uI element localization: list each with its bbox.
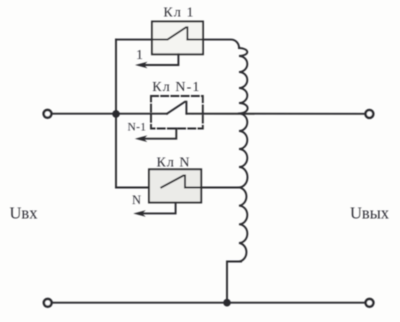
svg-text:Uвых: Uвых <box>350 203 390 222</box>
wire: row3 right segment to coil tap <box>185 187 240 189</box>
svg-text:Uвх: Uвх <box>10 204 39 223</box>
switch contact inside Кл N <box>161 176 185 188</box>
switch contact inside Кл 1 <box>152 27 187 39</box>
relay box Кл N <box>149 169 201 202</box>
svg-text:Кл 1: Кл 1 <box>163 5 194 20</box>
inductor L section A (top) <box>239 48 248 114</box>
wire: row2 right segment to output terminal <box>186 113 364 115</box>
terminal: output bottom <box>366 299 374 307</box>
wire: row1 left segment into Кл 1 <box>116 39 168 41</box>
svg-text:Кл N-1: Кл N-1 <box>152 80 200 95</box>
relay box Кл N-1 (dashed) <box>151 96 203 129</box>
wire: left vertical bus <box>115 40 117 188</box>
inductor L section B (middle) <box>239 113 247 187</box>
inductor L section C (bottom) <box>239 187 247 261</box>
actuator arrow of Кл N <box>143 203 176 214</box>
wire: input top horizontal <box>52 113 116 115</box>
switch contact inside Кл N-1 <box>167 102 186 114</box>
terminal: output top <box>366 110 374 118</box>
junction node: input bus <box>112 110 120 118</box>
svg-text:N: N <box>132 193 141 207</box>
terminal: input top <box>44 110 52 118</box>
junction node: bottom bus <box>223 299 231 307</box>
wire: coil bottom lead down to bottom bus <box>227 262 241 303</box>
actuator arrow of Кл N-1 <box>144 129 176 139</box>
relay box Кл 1 <box>152 22 203 55</box>
svg-text:Кл N: Кл N <box>157 155 191 170</box>
wire: row2 left segment into Кл N-1 <box>116 113 167 115</box>
actuator arrow of Кл 1 <box>145 54 179 65</box>
terminal: input bottom <box>44 299 52 307</box>
wire: row3 left segment from bus into Кл N <box>116 187 165 189</box>
svg-text:N-1: N-1 <box>128 122 147 134</box>
wire: bottom bus <box>52 302 365 304</box>
svg-text:1: 1 <box>136 48 143 63</box>
wire: row1 right segment to coil <box>187 40 239 48</box>
